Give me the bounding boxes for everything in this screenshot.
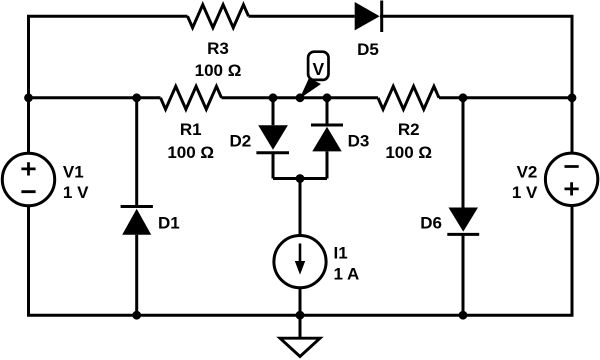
svg-text:D2: D2 <box>229 131 251 150</box>
svg-text:D6: D6 <box>420 214 442 233</box>
svg-text:V2: V2 <box>517 162 538 181</box>
svg-text:D1: D1 <box>158 214 180 233</box>
svg-text:100 Ω: 100 Ω <box>167 143 214 162</box>
svg-text:1 V: 1 V <box>63 183 89 202</box>
svg-text:V1: V1 <box>63 162 84 181</box>
svg-text:R1: R1 <box>180 120 202 139</box>
svg-text:R3: R3 <box>207 39 229 58</box>
svg-text:D5: D5 <box>357 40 379 59</box>
svg-text:V: V <box>312 59 324 79</box>
svg-text:R2: R2 <box>398 120 420 139</box>
svg-text:1 A: 1 A <box>334 265 360 284</box>
svg-text:100 Ω: 100 Ω <box>195 61 242 80</box>
svg-text:I1: I1 <box>334 244 348 263</box>
svg-text:D3: D3 <box>348 131 370 150</box>
svg-text:1 V: 1 V <box>512 183 538 202</box>
svg-text:100 Ω: 100 Ω <box>385 143 432 162</box>
